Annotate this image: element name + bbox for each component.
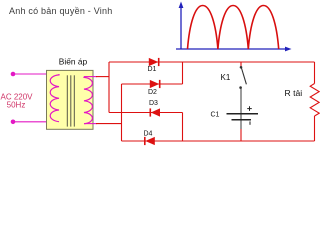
waveform horizontal axis	[176, 47, 292, 52]
wire: secondary top to node A	[96, 76, 109, 78]
wire: right edge to load	[314, 62, 316, 141]
diode D4	[145, 137, 155, 145]
wire: secondary bottom to node B	[96, 123, 122, 125]
wire: D2 branch row	[122, 83, 183, 85]
svg-text:D1: D1	[148, 66, 157, 73]
wire: C1 to bottom rail	[240, 119, 242, 129]
wire: secondary bottom lead (magenta stub)	[84, 123, 97, 125]
wire: cathode join bus D1-D2	[182, 62, 184, 84]
wire: node B vertical bus	[121, 84, 123, 141]
diode D1	[149, 58, 159, 66]
AC terminal dot top	[11, 72, 16, 77]
wire: node A vertical bus	[108, 62, 110, 113]
AC source label	[0, 92, 33, 109]
svg-text:D2: D2	[148, 89, 157, 96]
diode D2	[150, 80, 160, 88]
capacitor C1	[227, 114, 259, 120]
AC terminal dot bottom	[11, 120, 16, 125]
waveform rectified-sine trace	[188, 6, 279, 50]
wire: AC live to primary	[13, 73, 59, 75]
transformer core	[67, 75, 74, 126]
waveform vertical axis	[179, 2, 184, 50]
wire: anode join bus D3-D4	[182, 113, 184, 142]
transformer primary winding	[50, 74, 59, 122]
svg-text:R tải: R tải	[285, 88, 303, 98]
svg-text:D4: D4	[144, 130, 153, 137]
svg-text:Anh có bản quyền - Vinh: Anh có bản quyền - Vinh	[9, 6, 112, 16]
svg-text:D3: D3	[149, 100, 158, 107]
svg-text:C1: C1	[211, 111, 220, 118]
resistor R tai	[310, 84, 319, 117]
wire: secondary top lead (magenta stub)	[84, 76, 97, 78]
svg-text:K1: K1	[221, 73, 231, 82]
wire: D3 branch row	[109, 112, 183, 114]
wire: negative bottom rail	[122, 140, 315, 142]
switch K1	[239, 66, 246, 89]
svg-text:50Hz: 50Hz	[7, 101, 26, 110]
wire: K1 to C1	[240, 89, 242, 120]
wire: positive top rail	[109, 61, 315, 63]
diode D3	[150, 108, 160, 116]
transformer secondary winding	[84, 77, 92, 124]
C1 plus polarity mark	[247, 106, 252, 111]
wire: AC neutral to primary	[13, 121, 59, 123]
wire: K1 top stub	[240, 62, 242, 67]
svg-text:Biến áp: Biến áp	[59, 57, 88, 67]
transformer T1 body	[47, 70, 94, 129]
C1 minus polarity mark	[249, 121, 251, 124]
